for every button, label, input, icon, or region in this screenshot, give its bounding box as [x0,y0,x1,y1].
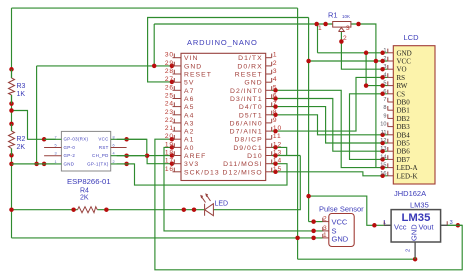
svg-text:RS: RS [397,74,406,82]
svg-text:25: 25 [165,93,174,100]
svg-text:3: 3 [383,64,386,70]
wire R1 right to VCC [351,24,376,61]
wire RW row [366,85,387,87]
svg-text:14: 14 [380,154,386,160]
svg-text:1: 1 [383,48,386,54]
svg-text:GND: GND [184,63,202,70]
wire D9 step [272,147,287,155]
svg-text:GP-0: GP-0 [64,145,76,150]
svg-text:A2: A2 [184,129,194,136]
wire GND vertical to ESP rail [36,66,38,164]
wire bottom-left rail to pulse GND [12,237,323,239]
svg-text:RW: RW [397,82,408,90]
resistor R2 [9,124,26,155]
wire ESP VCC to CH_PD [117,139,147,155]
svg-text:8: 8 [273,109,278,116]
svg-text:23: 23 [165,109,174,116]
svg-text:D7/AIN1: D7/AIN1 [230,129,263,136]
svg-text:VIN: VIN [184,55,198,62]
svg-text:D9/0C1: D9/0C1 [233,145,262,152]
svg-text:GND: GND [332,235,349,244]
svg-text:Vcc: Vcc [394,223,407,232]
wire RW to GND vertical [365,53,367,86]
svg-text:4: 4 [273,76,278,83]
svg-text:VCC: VCC [397,58,412,66]
svg-text:RST: RST [99,145,109,150]
svg-text:2: 2 [323,216,328,223]
svg-text:1K: 1K [17,91,26,98]
svg-text:A4: A4 [184,112,194,119]
svg-text:GND: GND [244,80,262,87]
svg-text:2K: 2K [80,195,89,202]
svg-text:D6/AIN0: D6/AIN0 [230,120,263,127]
svg-text:D10: D10 [247,153,263,160]
svg-text:29: 29 [165,60,174,67]
svg-text:10: 10 [380,122,386,128]
svg-text:LED: LED [215,201,229,208]
svg-text:27: 27 [165,76,174,83]
svg-text:R3: R3 [17,83,26,90]
svg-text:3: 3 [273,68,278,75]
svg-text:GND: GND [64,161,75,166]
svg-text:24: 24 [165,101,174,108]
wire ESP GND rail [12,163,56,165]
svg-text:AREF: AREF [184,153,206,160]
wire CS to DB7 [350,94,388,160]
svg-text:1: 1 [318,25,323,32]
wire D2 to LED-A [272,90,388,167]
svg-text:12: 12 [273,141,282,148]
svg-text:D4/T0: D4/T0 [239,104,263,111]
resistor R4 [78,188,98,213]
svg-text:SCK/D13: SCK/D13 [184,169,220,176]
svg-text:5: 5 [383,81,386,87]
svg-text:A0: A0 [184,145,194,152]
svg-text:DB6: DB6 [397,148,411,156]
ESP8266-01 module [12,131,148,186]
svg-text:A5: A5 [184,104,194,111]
svg-text:3V3: 3V3 [184,161,199,168]
svg-text:2K: 2K [17,144,26,151]
svg-text:7: 7 [273,101,278,108]
wire GND ring vertical right [297,8,299,259]
svg-text:DB3: DB3 [397,123,411,131]
wire 5V branch to LCD VCC [309,60,388,62]
svg-text:D2/INT0: D2/INT0 [230,88,263,95]
wire junction down to 3V3 [147,156,175,164]
svg-text:CH_PD: CH_PD [92,153,109,158]
svg-text:21: 21 [165,125,174,132]
svg-text:5: 5 [273,84,278,91]
wire 5V to pulse VCC [309,221,323,223]
svg-text:20: 20 [165,133,174,140]
svg-text:LCD: LCD [404,33,420,42]
svg-text:8: 8 [383,105,386,111]
svg-text:R4: R4 [80,188,89,195]
svg-text:17: 17 [165,158,174,165]
svg-text:7: 7 [55,135,57,139]
pin ticks [174,49,447,238]
svg-text:DB4: DB4 [397,131,411,139]
svg-text:10: 10 [273,125,282,132]
svg-text:16: 16 [165,166,174,173]
wire LED anode to D9/D10 net [213,156,300,210]
svg-text:GP-1(TX): GP-1(TX) [87,161,109,166]
wire D12 to LED-K [272,172,388,176]
wire D5 to DB4 [272,115,388,135]
svg-text:DB2: DB2 [397,115,411,123]
svg-text:9: 9 [273,117,278,124]
wire GND row to R1 left [154,23,333,25]
svg-text:14: 14 [273,158,282,165]
svg-text:D12/MISO: D12/MISO [223,169,263,176]
wire GND top rail [12,7,298,9]
LED [200,193,228,215]
svg-text:6: 6 [113,144,115,148]
svg-text:D11/MOSI: D11/MOSI [223,161,263,168]
svg-text:LED-A: LED-A [397,164,418,172]
svg-text:D5/T1: D5/T1 [239,112,263,119]
svg-text:6: 6 [273,93,278,100]
svg-text:A1: A1 [184,137,194,144]
Pulse Sensor [319,205,364,247]
svg-text:DB0: DB0 [397,99,411,107]
svg-text:11: 11 [381,130,387,136]
wire 5V rail vertical [308,18,310,222]
svg-text:3: 3 [346,25,351,32]
svg-text:13: 13 [380,146,386,152]
svg-text:2: 2 [406,249,412,252]
svg-text:1: 1 [55,160,57,164]
wire LCD GND pin1 [317,24,319,53]
svg-text:12: 12 [380,138,386,144]
svg-text:GP-2: GP-2 [64,153,76,158]
wire R4 to LED [97,209,204,211]
svg-text:CS: CS [397,90,406,98]
wire to LCD pin1 [318,52,388,54]
svg-text:1: 1 [323,232,328,239]
svg-text:7: 7 [383,97,386,103]
svg-text:RESET: RESET [235,72,263,79]
svg-text:R2: R2 [17,136,26,143]
svg-text:13: 13 [273,150,282,157]
svg-text:2: 2 [113,160,115,164]
LCD JHD162A [380,33,435,198]
wire R1 wiper to VO [341,31,387,69]
svg-text:Pulse Sensor: Pulse Sensor [319,205,364,214]
svg-text:8: 8 [113,135,115,139]
svg-text:LM35: LM35 [410,201,429,210]
svg-text:2: 2 [383,56,386,62]
svg-text:GND: GND [397,49,412,57]
svg-text:VO: VO [397,66,407,74]
resistor R3 [9,69,26,103]
svg-text:4: 4 [113,152,115,156]
wire D4 to DB5 [272,107,388,143]
wire ESP TX down [117,164,287,185]
svg-text:9: 9 [383,113,386,119]
svg-text:VCC: VCC [332,218,348,227]
svg-text:A6: A6 [184,96,194,103]
svg-text:10K: 10K [342,14,350,19]
wire GND bottom to LM35 [298,258,416,260]
svg-text:RESET: RESET [184,72,212,79]
svg-text:D3/INT1: D3/INT1 [230,96,263,103]
svg-text:A3: A3 [184,120,194,127]
wire GND row pin29 [37,65,175,67]
wire left rail upper [11,8,13,78]
svg-text:GP-03(RX): GP-03(RX) [64,137,89,142]
svg-text:16: 16 [380,171,386,177]
wire A0 to pulse S [164,147,323,231]
svg-text:2: 2 [273,60,278,67]
svg-text:30: 30 [165,52,174,59]
wire A1 to LM35 Vout [155,139,462,270]
wire D3 to DB6 [272,99,388,152]
svg-text:Vout: Vout [419,223,435,232]
svg-text:DB7: DB7 [397,156,411,164]
svg-text:ARDUINO_NANO: ARDUINO_NANO [187,38,258,47]
svg-text:6: 6 [383,89,386,95]
svg-text:VCC: VCC [98,137,108,142]
svg-text:1: 1 [273,52,278,59]
svg-text:28: 28 [165,68,174,75]
wire 5V from pin27 [148,18,309,82]
svg-text:3: 3 [323,225,328,232]
svg-text:5V: 5V [184,80,194,87]
svg-text:D0/RX: D0/RX [237,63,262,70]
svg-text:4: 4 [383,72,386,78]
svg-text:26: 26 [165,84,174,91]
svg-text:LED-K: LED-K [397,172,418,180]
svg-text:11: 11 [273,133,282,140]
svg-text:18: 18 [165,150,174,157]
wire left rail mid [11,95,13,131]
svg-text:JHD162A: JHD162A [394,189,426,198]
svg-text:GND: GND [410,224,419,241]
svg-text:A7: A7 [184,88,194,95]
wire LED-A to VCC vertical [375,61,377,168]
svg-text:5: 5 [55,144,57,148]
svg-text:3: 3 [450,220,453,226]
svg-text:DB5: DB5 [397,140,411,148]
svg-text:3: 3 [55,152,57,156]
wire D7 to RS [272,77,388,131]
wire GND branch down from y24 [153,24,155,66]
wire CH_PD row to AREF [117,155,175,157]
potentiometer R1 [318,11,351,43]
wire D10 row [272,155,301,157]
svg-text:2: 2 [343,35,348,42]
svg-text:1: 1 [383,220,386,226]
svg-text:D1/TX: D1/TX [238,55,263,62]
svg-text:19: 19 [165,141,174,148]
svg-text:ESP8266-01: ESP8266-01 [67,177,111,186]
svg-text:DB1: DB1 [397,107,411,115]
svg-text:22: 22 [165,117,174,124]
Arduino Nano [165,38,282,181]
wire left rail lower [11,149,13,238]
svg-text:15: 15 [273,166,282,173]
wire divider node to ESP RX [12,111,56,140]
svg-text:15: 15 [380,163,386,169]
LM35 [383,201,462,260]
wire R4 LED row [12,209,78,211]
svg-text:R1: R1 [328,11,338,20]
wire 5V branch to LM35 Vcc [309,196,392,225]
svg-text:D8/ICP: D8/ICP [234,137,262,144]
